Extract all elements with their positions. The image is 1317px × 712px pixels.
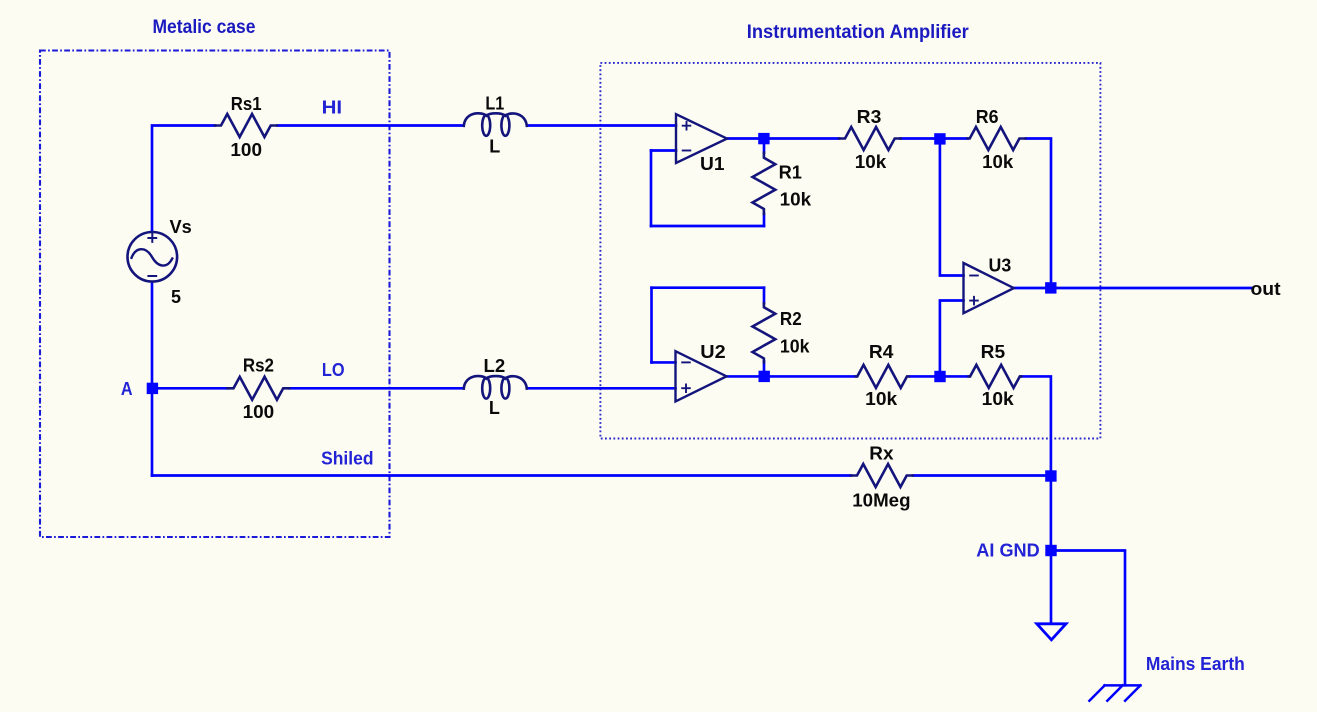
svg-text:10Meg: 10Meg	[852, 491, 910, 511]
wire: shield junction down to AI GND junction	[1050, 476, 1053, 551]
junction: U1 output	[758, 133, 769, 144]
wire: U3 + input down to R4/R5 junction	[940, 301, 964, 372]
op-amp U1 minus input mark	[683, 150, 691, 152]
wire: Rs2 to L2	[290, 387, 464, 390]
resistor R3	[839, 127, 901, 150]
op-amp U1 plus input mark	[683, 122, 691, 130]
wire: R3 to R6	[901, 137, 968, 140]
svg-text:100: 100	[243, 402, 275, 422]
junction: R3/R6/U3- node	[934, 133, 945, 144]
junction node A	[147, 383, 158, 394]
junction: U3 output / R6	[1045, 282, 1056, 293]
wire: R2 top stub	[763, 288, 766, 304]
wire: U2 output to R4	[727, 375, 857, 378]
wire: U3 output to out	[1014, 287, 1252, 290]
resistor Rs1	[215, 114, 277, 137]
svg-text:10k: 10k	[982, 389, 1015, 409]
op-amp U2 triangle	[676, 351, 727, 401]
resistor Rs2	[228, 377, 290, 400]
svg-text:Mains Earth: Mains Earth	[1146, 654, 1245, 674]
wire: U2 feedback left vertical	[650, 288, 653, 363]
wire: R1 bottom stub	[763, 214, 766, 226]
svg-text:L1: L1	[485, 94, 504, 114]
voltage source Vs sine wave	[132, 249, 173, 265]
wire: Vs bottom to A to shield row	[151, 282, 154, 476]
resistor R5	[969, 365, 1022, 388]
wire: AI GND junction down to ground symbol	[1050, 551, 1053, 624]
svg-text:10k: 10k	[982, 152, 1014, 172]
svg-text:R1: R1	[779, 163, 802, 183]
voltage source Vs minus mark	[148, 275, 156, 277]
svg-text:LO: LO	[322, 360, 345, 380]
earth symbol (Mains Earth)	[1089, 685, 1140, 700]
wire: shield row left	[152, 474, 851, 477]
wire: R5 to corner down to shield junction	[1021, 376, 1051, 476]
svg-text:R5: R5	[981, 342, 1006, 362]
svg-text:Vs: Vs	[170, 217, 192, 237]
junction: R4/R5/U3+ node	[934, 371, 945, 382]
wire: R2 bottom stub to U2 output junction	[763, 362, 766, 377]
svg-text:10k: 10k	[865, 389, 898, 409]
wire: U1 - input stub	[651, 149, 676, 152]
svg-text:L: L	[489, 398, 500, 418]
wire: U1 feedback bottom	[651, 225, 764, 228]
svg-text:R3: R3	[857, 107, 882, 127]
wire: AI GND junction right and down to mains earth	[1051, 551, 1125, 686]
svg-text:U2: U2	[700, 342, 725, 362]
wire: U2 - input stub	[652, 361, 676, 364]
wire: A to Rs2 (LO row)	[152, 387, 228, 390]
svg-text:R6: R6	[976, 107, 999, 127]
svg-text:10k: 10k	[855, 152, 888, 172]
junction: shield/Rx node	[1045, 470, 1056, 481]
svg-text:U3: U3	[989, 256, 1012, 276]
resistor R2 (vertical)	[753, 303, 776, 362]
ground symbol (AI GND)	[1037, 624, 1066, 640]
svg-text:L2: L2	[484, 356, 506, 376]
junction: AI GND node	[1045, 545, 1056, 556]
enclosure box: Metalic case (dash-dot)	[40, 51, 390, 538]
inductor L1	[464, 113, 527, 126]
op-amp U3 plus input mark	[970, 297, 978, 305]
resistor R4	[856, 365, 909, 388]
wire: Rx to shield junction	[913, 474, 1051, 477]
wire: U1 output junction to R1 top stub	[763, 139, 766, 153]
svg-text:U1: U1	[700, 154, 725, 174]
wire: R4 to R5	[910, 375, 969, 378]
wire: L1 to U1 + input	[528, 124, 677, 127]
op-amp U3 minus input mark	[970, 275, 978, 277]
op-amp U1 triangle	[676, 114, 727, 163]
svg-text:Rs2: Rs2	[243, 355, 274, 375]
svg-text:5: 5	[171, 287, 181, 307]
svg-text:A: A	[121, 379, 133, 399]
svg-text:Shiled: Shiled	[321, 448, 373, 468]
svg-text:Metalic case: Metalic case	[153, 17, 256, 38]
op-amp U2 minus input mark	[682, 361, 690, 363]
svg-text:Instrumentation Amplifier: Instrumentation Amplifier	[747, 22, 970, 43]
voltage source Vs circle	[128, 232, 178, 282]
enclosure box: Instrumentation Amplifier (dotted)	[600, 63, 1100, 439]
wire: top-left corner to Rs1 (HI row)	[152, 126, 215, 232]
op-amp U2 plus input mark	[682, 384, 690, 392]
svg-text:100: 100	[230, 140, 262, 160]
voltage source Vs plus mark	[148, 234, 156, 242]
resistor Rx	[851, 464, 913, 487]
wire: Rs1 to L1	[278, 124, 464, 127]
op-amp U3 triangle	[964, 263, 1014, 313]
svg-text:HI: HI	[322, 98, 343, 118]
svg-text:10k: 10k	[780, 337, 811, 357]
resistor R1 (vertical)	[753, 153, 776, 214]
wire: U2 feedback top	[652, 286, 765, 289]
wire: R6 to corner down to U3 output junction	[1026, 139, 1051, 288]
svg-text:AI GND: AI GND	[976, 540, 1039, 560]
wire: L2 to U2 + input	[528, 387, 676, 390]
resistor R6	[968, 127, 1026, 150]
svg-text:10k: 10k	[780, 189, 813, 209]
svg-text:Rx: Rx	[869, 443, 893, 463]
wire: junction to U3 - input	[940, 144, 964, 276]
wire: U1 output to R3	[727, 137, 840, 140]
inductor L2	[464, 376, 527, 389]
svg-text:R4: R4	[869, 342, 894, 362]
wire: U1 feedback left vertical	[650, 151, 653, 227]
svg-text:Rs1: Rs1	[231, 94, 262, 114]
junction: U2 output	[759, 371, 770, 382]
svg-text:out: out	[1251, 279, 1281, 299]
svg-text:L: L	[489, 136, 500, 156]
svg-text:R2: R2	[780, 309, 802, 329]
